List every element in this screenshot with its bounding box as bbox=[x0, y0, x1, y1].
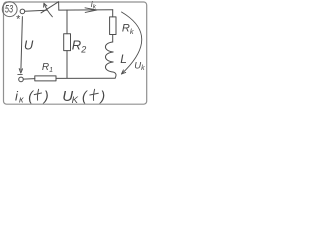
current arrow i_k bbox=[85, 8, 97, 13]
wire: switch S1 to node A (top rail) bbox=[59, 9, 113, 11]
wire: R1 to inductor branch (bottom rail) bbox=[56, 77, 115, 79]
svg-text:*: * bbox=[16, 13, 21, 25]
svg-text:U: U bbox=[24, 37, 34, 52]
wire: Rk to inductor L bbox=[112, 35, 114, 43]
wire: top rail corner down to Rk bbox=[112, 10, 114, 17]
resistor Rk bbox=[110, 17, 116, 35]
terminal T2 (bottom input) bbox=[19, 77, 24, 82]
svg-text:53: 53 bbox=[5, 4, 14, 16]
minus mark at bottom terminal bbox=[18, 73, 23, 75]
resistor R2 bbox=[64, 34, 71, 51]
switch S1 blade bbox=[41, 2, 59, 13]
badge circle 53 bbox=[2, 2, 17, 17]
svg-text:к: к bbox=[19, 95, 24, 106]
terminal T1 (top input) bbox=[20, 9, 25, 14]
svg-text:K: K bbox=[72, 95, 79, 106]
wire: terminal T2 to R1 bbox=[23, 78, 35, 81]
wire: R2 to bottom rail bbox=[66, 51, 68, 78]
wire: node A down to R2 bbox=[66, 10, 68, 34]
resistor R1 bbox=[35, 76, 56, 81]
inductor L coil bbox=[105, 42, 113, 72]
switch S1 closing arrow bbox=[44, 3, 53, 17]
wire: terminal T1 to switch S1 bbox=[25, 10, 47, 11]
voltage arrow U (input) bbox=[19, 17, 22, 73]
voltage arrow U_k (arc) bbox=[122, 12, 142, 74]
wire: inductor bottom to bottom rail bbox=[113, 72, 116, 78]
svg-text:L: L bbox=[120, 52, 127, 66]
